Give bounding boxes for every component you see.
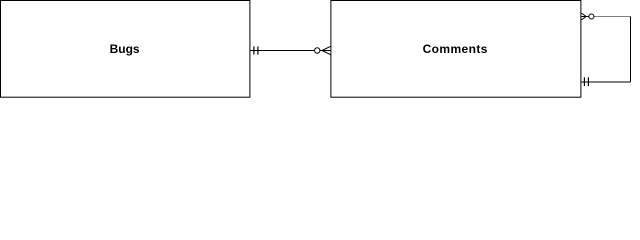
entity Comments [331,1,581,98]
wire Bugs-Comments [250,50,322,52]
entity Bugs [1,1,250,98]
one tick 1 (Bugs end) [253,46,255,54]
self-loop wire top [594,16,631,18]
self-loop wire right [630,17,632,83]
zero circle (Comments end) [315,48,320,53]
self-loop wire bottom [581,81,630,83]
svg-text:Bugs: Bugs [110,42,140,56]
one tick 2 (loop bottom) [587,77,589,86]
crow's foot (loop top, Comments edge) [581,13,589,20]
svg-text:Comments: Comments [423,42,488,56]
crow's foot (Comments end) [322,46,331,55]
one tick 2 (Bugs end) [257,46,259,54]
zero circle (loop top) [589,14,594,19]
one tick 1 (loop bottom) [583,77,585,86]
